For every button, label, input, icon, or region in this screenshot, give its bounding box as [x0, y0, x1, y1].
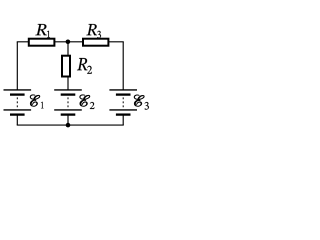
battery E1 — [3, 90, 31, 115]
label E3 (script E) — [134, 95, 144, 107]
wire left vertical — [16, 42, 18, 90]
label E1 (script E) — [30, 95, 40, 107]
label R2 — [77, 58, 87, 70]
resistor R3 — [83, 39, 108, 46]
wire R2 bottom to battery E2 — [67, 77, 69, 90]
wire bottom horizontal bus — [17, 124, 124, 126]
wire top horizontal bus — [17, 41, 124, 43]
wire battery E1 to bottom bus — [16, 115, 18, 125]
wire battery E3 to bottom bus — [122, 115, 124, 125]
label R3 — [86, 24, 97, 35]
wire right vertical — [122, 42, 124, 90]
node junction bottom — [66, 123, 71, 128]
wire battery E2 to bottom bus — [67, 115, 69, 125]
resistor R1 — [29, 39, 55, 46]
battery E2 — [54, 90, 82, 115]
battery E3 — [109, 90, 137, 115]
wire middle vertical node to R2 — [67, 42, 69, 56]
resistor R2 — [62, 56, 70, 77]
node junction top — [66, 40, 71, 45]
label E2 (script E) — [80, 95, 90, 107]
label R1 — [35, 24, 46, 35]
